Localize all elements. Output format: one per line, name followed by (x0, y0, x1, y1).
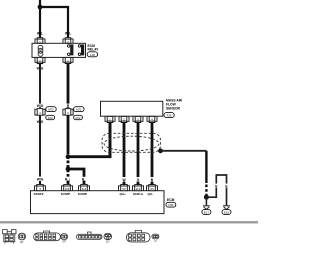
MAF pin 1 (105, 116, 115, 122)
connector face C8 (152, 234, 159, 239)
wire R down to junctions (67, 115, 70, 151)
wire W/G to ECM (39, 115, 41, 176)
node below relay left (39, 63, 41, 65)
svg-text:W/G: W/G (37, 177, 44, 181)
wire bracket to ground 2 (206, 175, 226, 205)
node MAF pin2 (123, 122, 126, 125)
pin 2 relay bottom-left (35, 57, 45, 63)
wire color W/G above connector (36, 104, 45, 108)
svg-text:116: 116 (65, 187, 70, 191)
connector id oval F23 (46, 115, 55, 120)
connector face C4 (61, 234, 68, 240)
wire shield drain to right (161, 150, 207, 152)
node MAF pin1 (109, 122, 112, 125)
wire MAF pin2 to ECM (123, 123, 126, 177)
pin 2 relay top-right (63, 36, 73, 44)
connector face C6 (104, 233, 112, 239)
svg-text:M72: M72 (48, 108, 54, 112)
inline connector M72-F23 (35, 109, 45, 116)
ECM pin QA+ (119, 185, 130, 191)
ground symbol 1 (203, 206, 210, 210)
wire MAF pin1 down (109, 123, 112, 158)
svg-text:54: 54 (122, 187, 126, 191)
connector face C1 relay socket (3, 230, 16, 244)
svg-text:F22: F22 (76, 116, 81, 120)
wire R relay to inline connector (67, 64, 70, 108)
svg-text:GY: GY (106, 240, 110, 244)
connector face C7 (126, 230, 150, 242)
separator line (0, 221, 258, 223)
pin 1 relay bottom-right (63, 57, 73, 63)
wire to ground 1 (205, 197, 207, 205)
ECM pin GND-A (133, 185, 144, 191)
ECM box (31, 191, 165, 214)
relay contact a (67, 44, 73, 55)
wire W/G relay to inline connector (39, 64, 41, 108)
svg-text:QA+: QA+ (120, 192, 127, 196)
svg-text:SSOFF: SSOFF (34, 192, 44, 196)
connector id oval M72 (46, 107, 56, 112)
svg-text:64: 64 (150, 187, 154, 191)
svg-text:ECMP: ECMP (78, 192, 87, 196)
svg-text:114: 114 (136, 187, 141, 191)
svg-text:ECMP: ECMP (61, 192, 70, 196)
svg-text:F23: F23 (48, 116, 53, 120)
node MAF pin3 (137, 122, 140, 125)
svg-text:GND-A: GND-A (133, 192, 144, 196)
ECM relay box (32, 43, 86, 57)
node R branch to ECMP pins (66, 167, 71, 172)
wire color R above connector (66, 104, 71, 108)
node R branch to MAF supply (66, 154, 71, 159)
node below relay right (67, 63, 69, 65)
ground id oval E15 (222, 210, 231, 215)
MASS AIR FLOW SENSOR box (101, 101, 163, 116)
svg-text:112: 112 (82, 187, 87, 191)
ECM pin QA- (147, 185, 158, 191)
svg-text:M71: M71 (76, 108, 82, 112)
wire from top feed (39, 0, 41, 37)
svg-text:G: G (137, 178, 140, 182)
wire shield drain dashed (205, 185, 207, 196)
svg-text:F18: F18 (90, 53, 95, 57)
svg-text:GY: GY (63, 240, 67, 244)
wire MAF pin4 to ECM (151, 123, 154, 177)
connector id oval F22 (74, 115, 83, 120)
node shield drain (158, 148, 163, 153)
MAF pin 2 (119, 116, 129, 122)
connector id oval F18 (87, 52, 97, 57)
inline connector M71-F22 (63, 109, 73, 116)
wire shield drain down (205, 151, 207, 183)
connector id oval M71 (74, 107, 84, 112)
MAF pin 3 (133, 116, 143, 122)
wire color R above ECM pin 2 (81, 177, 86, 181)
svg-text:E17: E17 (204, 211, 209, 215)
svg-text:GY: GY (20, 240, 24, 244)
node MAF pin4 (151, 122, 154, 125)
shield inner dashed loop (104, 136, 159, 151)
ECM pin ECMP 1 (62, 185, 73, 191)
svg-text:W/L: W/L (37, 32, 43, 36)
wire color R above ECM pin (64, 177, 69, 181)
wire R dashed section (67, 152, 70, 182)
wire R to MAF pin1 riser (68, 123, 110, 157)
svg-text:QA-: QA- (148, 192, 154, 196)
svg-text:W/L: W/L (65, 32, 71, 36)
shield dashed box (102, 133, 161, 152)
connector face C5 (76, 232, 102, 240)
svg-text:SENSOR: SENSOR (166, 107, 181, 111)
wire color B on bracket left (214, 184, 218, 188)
pin 1 relay top-left (35, 36, 45, 44)
connector id oval F26 (164, 113, 174, 118)
ECM pin ECMP 2 (79, 185, 90, 191)
MAF pin 4 (147, 116, 157, 122)
ECM pin SSOFF (35, 185, 46, 191)
wire R to first ECMP pin (67, 181, 70, 184)
ground symbol 2 (223, 206, 230, 210)
wire branch to second ECMP pin (68, 169, 84, 184)
svg-text:ECM: ECM (167, 198, 175, 202)
svg-text:RELAY: RELAY (88, 48, 100, 52)
svg-text:W/G: W/G (37, 104, 44, 108)
connector face C3 (34, 231, 61, 241)
svg-text:O: O (154, 239, 156, 243)
svg-text:F56: F56 (168, 203, 173, 207)
connector face C2 (18, 233, 25, 240)
node junction top (38, 5, 43, 10)
ground id oval E17 (202, 210, 211, 215)
wire color B on bracket right (225, 184, 229, 188)
relay coil (38, 45, 43, 56)
svg-text:E15: E15 (224, 211, 229, 215)
connector id oval F56 (166, 202, 176, 207)
svg-text:F26: F26 (167, 114, 172, 118)
relay contact b (78, 44, 84, 55)
wire MAF pin3 to ECM (137, 123, 140, 177)
wire branch to second relay pin (40, 7, 68, 37)
node ground junction (204, 195, 209, 200)
